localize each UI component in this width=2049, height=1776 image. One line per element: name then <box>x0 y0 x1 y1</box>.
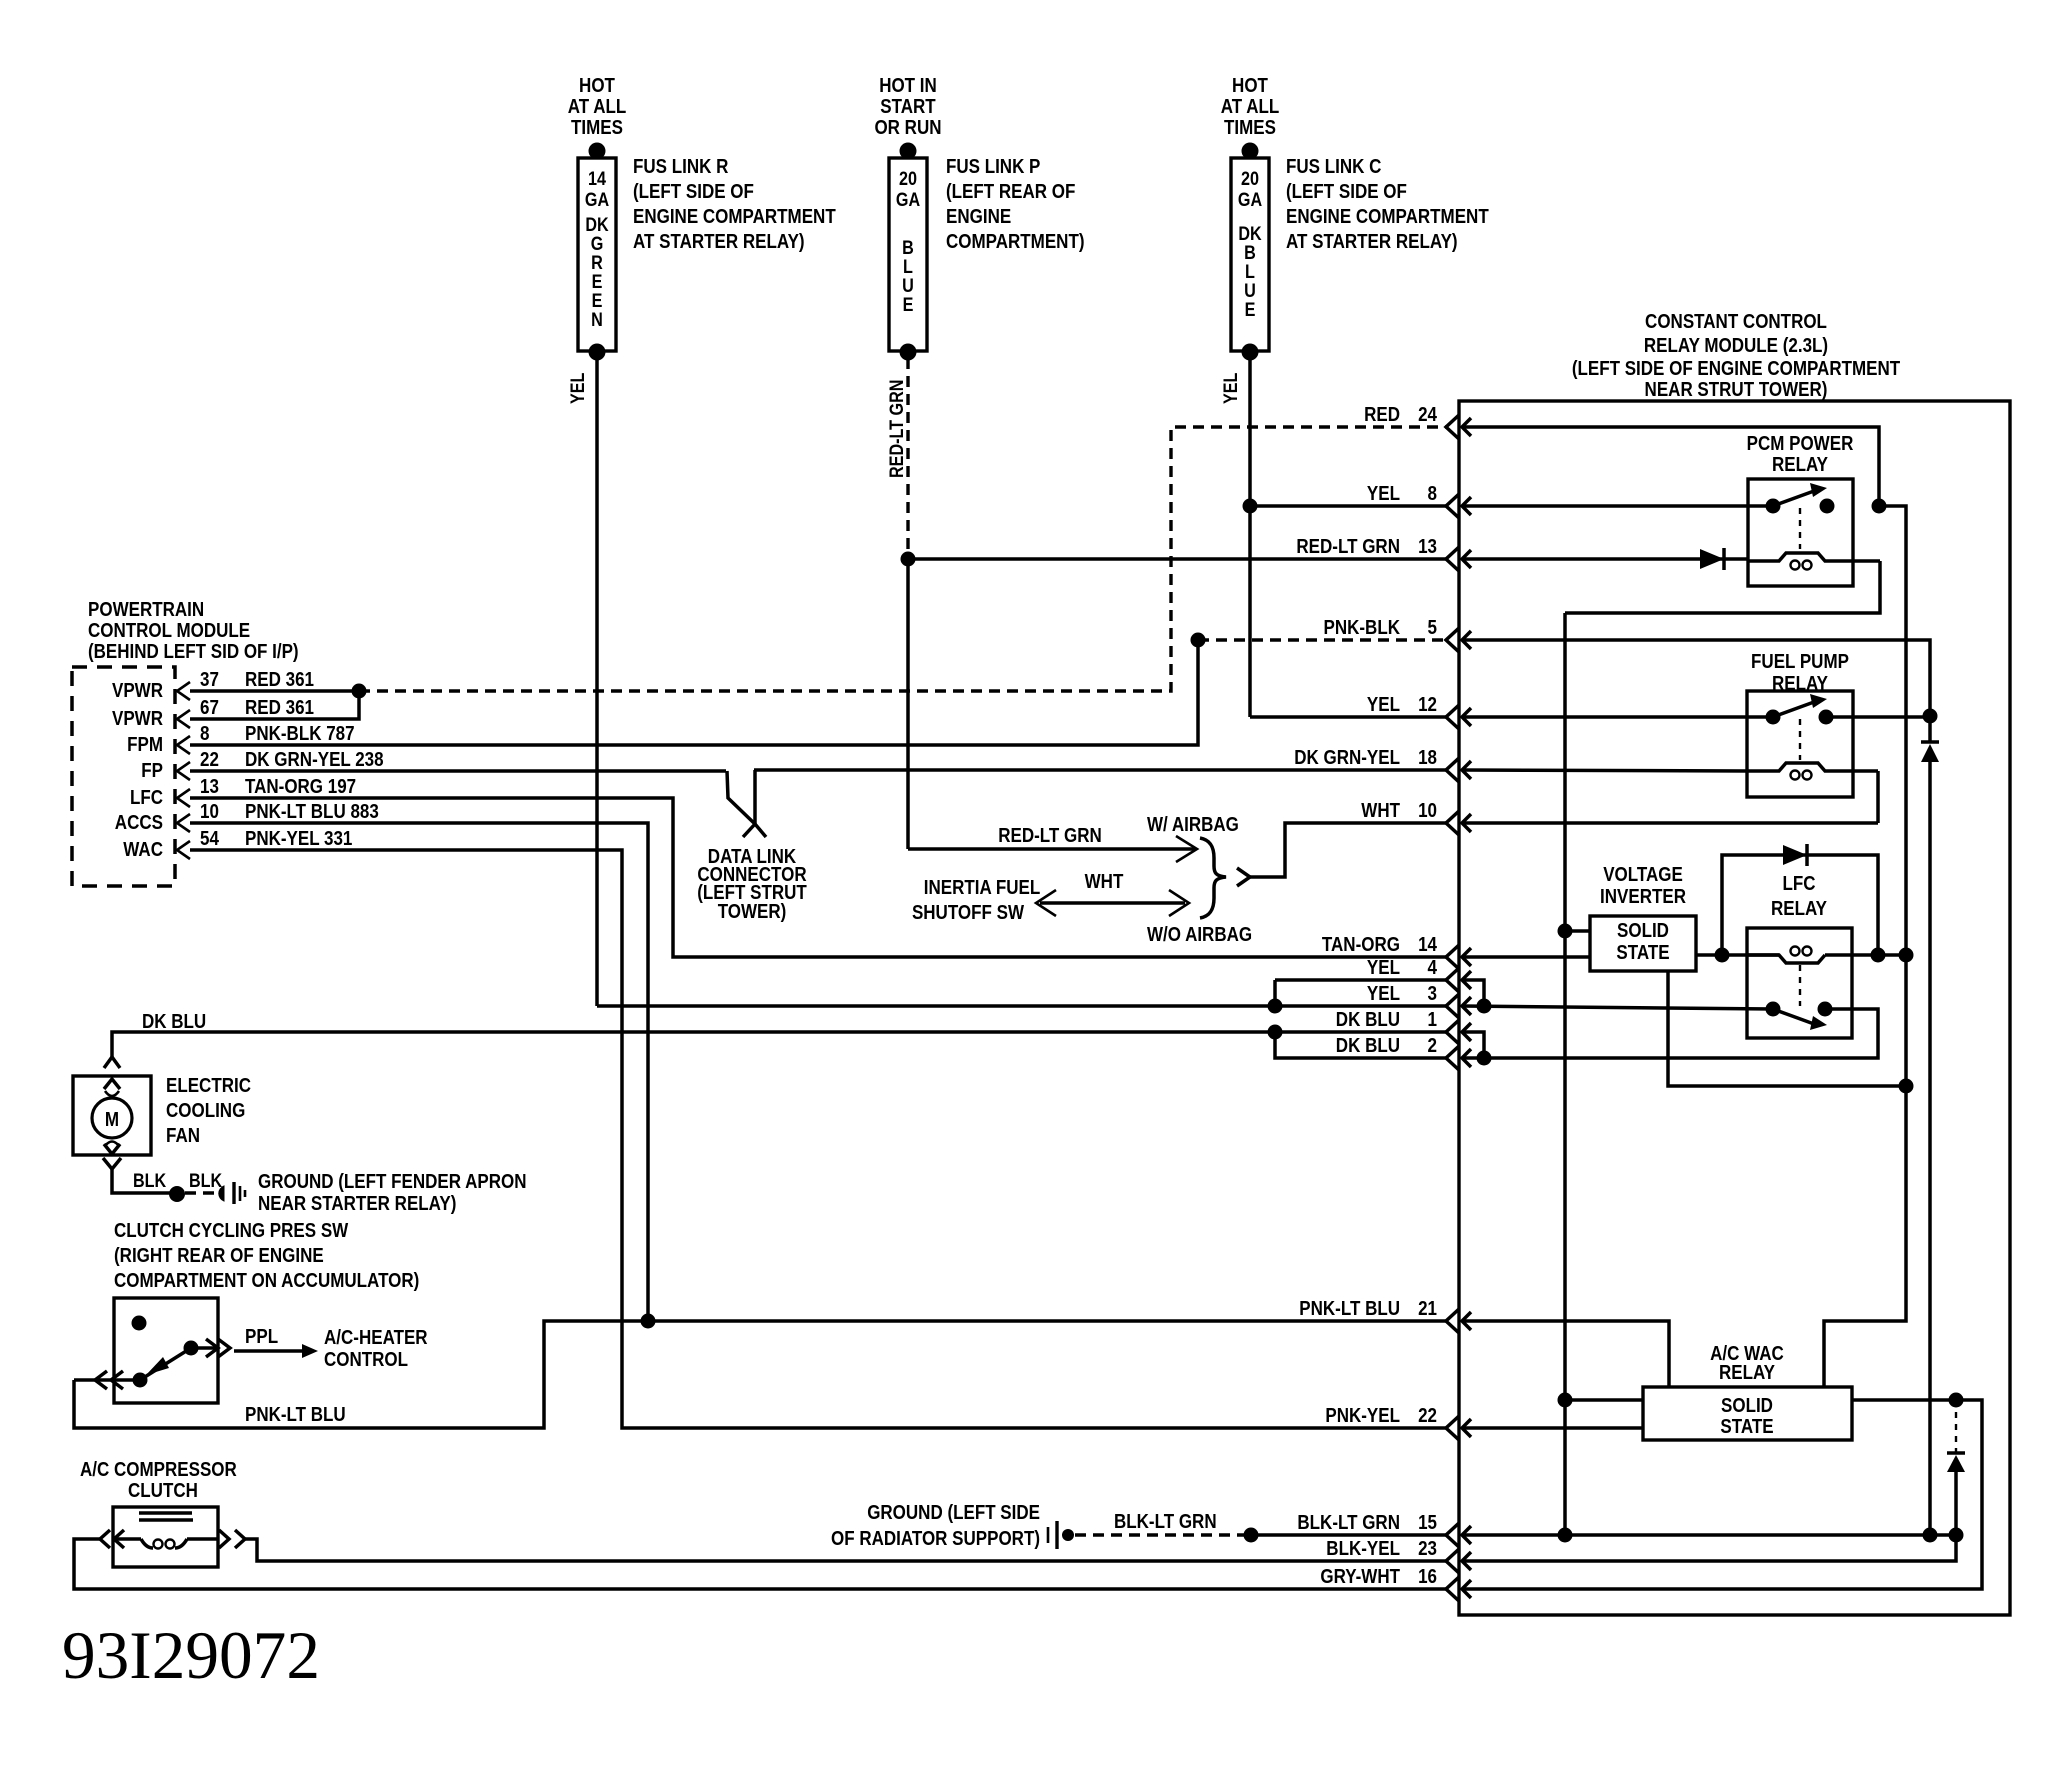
CCRM pin 15 (BLK-LT GRN) <box>1297 1512 1471 1547</box>
svg-text:E: E <box>592 291 603 312</box>
CCRM pin 10 (WHT) <box>1361 800 1471 835</box>
wire BLK dashed to ground <box>185 1191 218 1194</box>
node pin1/2 junction <box>1477 1051 1492 1066</box>
node rail B / inverter bottom junction <box>1899 1079 1914 1094</box>
svg-text:10: 10 <box>1418 800 1437 822</box>
svg-text:STATE: STATE <box>1616 942 1669 964</box>
svg-text:FUEL PUMP: FUEL PUMP <box>1751 651 1849 673</box>
node YEL 3/4 junction <box>1268 999 1283 1014</box>
svg-text:GA: GA <box>1238 190 1262 211</box>
svg-text:E: E <box>592 272 603 293</box>
CCRM pin 21 (PNK-LT BLU) <box>1299 1298 1471 1333</box>
CCRM pin 13 (RED-LT GRN) <box>1296 536 1471 571</box>
wire BLK fan to ground <box>112 1169 177 1193</box>
svg-text:N: N <box>591 310 603 331</box>
fuel pump relay label <box>1751 651 1849 695</box>
svg-text:YEL: YEL <box>1221 372 1242 404</box>
svg-text:14: 14 <box>1418 934 1438 956</box>
svg-text:67: 67 <box>200 697 219 719</box>
wire inverter output to LFC relay coil <box>1696 953 1779 957</box>
svg-text:HOT IN: HOT IN <box>879 75 937 97</box>
wire pin 8 to PCM power relay contact <box>1462 504 1773 508</box>
svg-text:ELECTRIC: ELECTRIC <box>166 1075 251 1097</box>
svg-text:U: U <box>1244 281 1256 302</box>
svg-text:14: 14 <box>588 169 606 190</box>
svg-text:AT ALL: AT ALL <box>1221 96 1280 118</box>
svg-text:B: B <box>1244 243 1256 264</box>
svg-text:13: 13 <box>1418 536 1437 558</box>
svg-text:TIMES: TIMES <box>571 117 623 139</box>
svg-text:13: 13 <box>200 776 219 798</box>
wire pin 5 to fuel pump output <box>1462 640 1930 716</box>
svg-text:(RIGHT REAR OF ENGINE: (RIGHT REAR OF ENGINE <box>114 1245 324 1267</box>
svg-text:5: 5 <box>1428 617 1438 639</box>
svg-text:W/ AIRBAG: W/ AIRBAG <box>1147 814 1239 836</box>
wire FP DK GRN-YEL 238 (left of data link connector) <box>190 769 726 773</box>
svg-text:OR RUN: OR RUN <box>874 117 941 139</box>
PCM pin VPWR 67 (RED 361) <box>112 697 314 730</box>
svg-text:LFC: LFC <box>1783 873 1816 895</box>
svg-text:ENGINE: ENGINE <box>946 206 1011 228</box>
svg-text:PNK-YEL 331: PNK-YEL 331 <box>245 828 352 850</box>
wire YEL 8 to CCRM pin 8 <box>1250 504 1446 508</box>
svg-text:HOT: HOT <box>579 75 615 97</box>
powertrain control module label <box>88 599 299 663</box>
CCRM pin 22 (PNK-YEL) <box>1325 1405 1471 1440</box>
svg-text:DK: DK <box>1238 224 1262 245</box>
svg-text:FAN: FAN <box>166 1125 200 1147</box>
svg-text:TAN-ORG: TAN-ORG <box>1322 934 1400 956</box>
svg-text:BLK-LT GRN: BLK-LT GRN <box>1114 1511 1217 1533</box>
svg-text:ACCS: ACCS <box>115 812 163 834</box>
A/C WAC relay label <box>1710 1343 1784 1384</box>
svg-text:DK: DK <box>585 215 609 236</box>
A/C-heater control label <box>324 1327 428 1371</box>
node LFC coil / rail junction <box>1899 948 1914 963</box>
svg-text:AT ALL: AT ALL <box>568 96 627 118</box>
fuse link R (14 GA DK GREEN, hot at all times) <box>568 75 627 361</box>
svg-text:2: 2 <box>1428 1035 1438 1057</box>
wire pin 23 to ground net <box>1462 1535 1956 1561</box>
node inverter/diode loop junction <box>1715 948 1730 963</box>
svg-text:CONSTANT CONTROL: CONSTANT CONTROL <box>1645 311 1827 333</box>
wire PPL arrow to A/C-heater control <box>234 1326 318 1358</box>
svg-text:GROUND (LEFT SIDE: GROUND (LEFT SIDE <box>867 1502 1040 1524</box>
svg-text:FPM: FPM <box>127 734 163 756</box>
svg-text:RELAY: RELAY <box>1719 1362 1776 1384</box>
svg-text:PNK-BLK: PNK-BLK <box>1324 617 1401 639</box>
constant control relay module label <box>1572 311 1900 401</box>
fuse link C (20 GA DK BLUE, hot at all times) <box>1221 75 1280 361</box>
wire pin 12 to fuel pump relay contact <box>1462 715 1773 719</box>
node PNK-BLK junction <box>1191 633 1206 648</box>
node DK BLU 1/2 junction <box>1268 1025 1283 1040</box>
svg-text:YEL: YEL <box>1367 483 1400 505</box>
svg-text:(LEFT SIDE OF ENGINE COMPARTME: (LEFT SIDE OF ENGINE COMPARTMENT <box>1572 358 1900 380</box>
svg-text:93I29072: 93I29072 <box>62 1617 320 1693</box>
svg-text:YEL: YEL <box>1367 957 1400 979</box>
wire pin 2 to LFC relay contact output <box>1462 1009 1878 1058</box>
svg-text:WHT: WHT <box>1085 871 1124 893</box>
svg-text:(LEFT SIDE OF: (LEFT SIDE OF <box>633 181 754 203</box>
svg-text:VOLTAGE: VOLTAGE <box>1603 864 1683 886</box>
node WAC output / diode junction <box>1949 1393 1964 1408</box>
svg-text:GA: GA <box>896 190 920 211</box>
svg-text:CLUTCH: CLUTCH <box>128 1480 198 1502</box>
wire YEL from fuse link C down <box>1221 352 1250 717</box>
constant control relay module box <box>1459 401 2010 1615</box>
wire ground rail to WAC relay <box>1565 1398 1643 1402</box>
wire RED-LT GRN 13 to CCRM pin 13 <box>908 557 1446 561</box>
svg-text:NEAR STRUT TOWER): NEAR STRUT TOWER) <box>1645 379 1828 401</box>
svg-text:RELAY: RELAY <box>1772 454 1829 476</box>
wire RED-LT GRN arrow to W/ AIRBAG <box>908 825 1197 862</box>
svg-text:15: 15 <box>1418 1512 1437 1534</box>
wire WHT double arrow to inertia switch <box>1036 871 1189 916</box>
CCRM pin 14 (TAN-ORG) <box>1322 934 1471 969</box>
CCRM pin 23 (BLK-YEL) <box>1326 1538 1471 1573</box>
node pin3/4 junction <box>1477 999 1492 1014</box>
svg-text:RED-LT GRN: RED-LT GRN <box>887 380 908 478</box>
A/C WAC relay solid state box U4 <box>1643 1387 1852 1440</box>
node fuel pump output junction <box>1923 709 1938 724</box>
svg-text:TOWER): TOWER) <box>718 901 787 923</box>
CCRM pin 5 (PNK-BLK) <box>1324 617 1472 652</box>
svg-text:PNK-LT BLU: PNK-LT BLU <box>245 1404 346 1426</box>
wire pin 1 branch <box>1462 1032 1484 1058</box>
wire PNK-LT BLU switch to pin 21 <box>74 1321 1446 1428</box>
wire pin 13 with diode to PCM power relay coil <box>1462 548 1748 570</box>
svg-text:WHT: WHT <box>1361 800 1400 822</box>
wire PCM relay coil to ground rail <box>1565 561 1880 613</box>
svg-text:STATE: STATE <box>1720 1416 1773 1438</box>
svg-text:CONTROL MODULE: CONTROL MODULE <box>88 620 250 642</box>
voltage inverter label <box>1600 864 1686 908</box>
CCRM pin 3 (YEL) <box>1367 983 1471 1018</box>
inertia fuel shutoff switch label <box>912 877 1040 924</box>
voltage inverter solid state box <box>1590 916 1696 971</box>
chevron output of brace <box>1237 868 1250 886</box>
svg-text:FUS LINK R: FUS LINK R <box>633 156 729 178</box>
electric cooling fan motor M <box>73 1057 151 1169</box>
svg-text:(LEFT SIDE OF: (LEFT SIDE OF <box>1286 181 1407 203</box>
svg-text:BLK: BLK <box>189 1171 222 1192</box>
CCRM pin 2 (DK BLU) <box>1336 1035 1471 1070</box>
svg-text:37: 37 <box>200 669 219 691</box>
svg-text:INVERTER: INVERTER <box>1600 886 1686 908</box>
wire BLK-YEL clutch to pin 23 <box>245 1539 1446 1561</box>
A/C compressor clutch label <box>80 1459 237 1502</box>
PCM pin LFC 13 (TAN-ORG 197) <box>130 776 356 809</box>
wire pin 18 to fuel pump relay coil <box>1462 770 1747 771</box>
svg-text:18: 18 <box>1418 747 1437 769</box>
svg-text:L: L <box>1245 262 1255 283</box>
ground radiator support symbol <box>1048 1521 1074 1549</box>
fuse link P (20 GA BLUE, hot in start or run) <box>874 75 941 361</box>
wire GRY-WHT clutch to pin 16 <box>74 1539 1446 1589</box>
svg-text:GRY-WHT: GRY-WHT <box>1320 1566 1400 1588</box>
ground left fender apron <box>219 1182 245 1204</box>
node rail/inverter junction <box>1558 924 1573 939</box>
CCRM pin 18 (DK GRN-YEL) <box>1294 747 1471 782</box>
data link connector symbol <box>727 770 766 837</box>
CCRM pin 24 (RED) <box>1364 404 1471 439</box>
svg-text:INERTIA FUEL: INERTIA FUEL <box>924 877 1041 899</box>
svg-text:HOT: HOT <box>1232 75 1268 97</box>
svg-text:BLK-LT GRN: BLK-LT GRN <box>1297 1512 1400 1534</box>
svg-text:20: 20 <box>1241 169 1259 190</box>
wire RED-LT GRN dashed from fuse link P down <box>887 358 908 559</box>
wire pin 14 to voltage inverter <box>1462 955 1590 959</box>
svg-text:FUS LINK P: FUS LINK P <box>946 156 1040 178</box>
svg-text:WAC: WAC <box>123 839 163 861</box>
svg-text:PPL: PPL <box>245 1326 278 1348</box>
svg-text:PNK-YEL: PNK-YEL <box>1325 1405 1400 1427</box>
svg-text:FP: FP <box>141 760 163 782</box>
svg-text:SOLID: SOLID <box>1721 1395 1773 1417</box>
svg-text:DK BLU: DK BLU <box>1336 1035 1400 1057</box>
PCM pin FP 22 (DK GRN-YEL 238) <box>141 749 383 782</box>
svg-text:GA: GA <box>585 190 609 211</box>
wire VPWR 37 RED 361 <box>190 689 359 693</box>
PCM pin VPWR 37 (RED 361) <box>112 669 314 702</box>
node BLK splice <box>169 1186 185 1202</box>
wire BLK-LT GRN dashed from ground <box>1075 1533 1251 1536</box>
electric cooling fan label <box>166 1075 251 1147</box>
wire ground rail to voltage inverter <box>1565 929 1590 933</box>
svg-text:R: R <box>591 253 603 274</box>
node RED 361 junction <box>352 684 367 699</box>
svg-text:AT STARTER RELAY): AT STARTER RELAY) <box>1286 231 1458 253</box>
svg-text:FUS LINK C: FUS LINK C <box>1286 156 1381 178</box>
svg-text:PNK-LT BLU: PNK-LT BLU <box>1299 1298 1400 1320</box>
svg-text:RED: RED <box>1364 404 1400 426</box>
wire pin 15 ground distribution <box>1462 1533 1956 1537</box>
svg-text:22: 22 <box>1418 1405 1437 1427</box>
svg-text:DK GRN-YEL 238: DK GRN-YEL 238 <box>245 749 384 771</box>
svg-text:NEAR STARTER RELAY): NEAR STARTER RELAY) <box>258 1193 456 1215</box>
CCRM pin 1 (DK BLU) <box>1336 1009 1471 1044</box>
node rail/WAC junction <box>1558 1393 1573 1408</box>
diode A/C WAC clamp <box>1947 1400 1965 1535</box>
svg-text:24: 24 <box>1418 404 1438 426</box>
wire DK BLU fan to pin 1 <box>112 1032 1446 1057</box>
node contact output junction <box>1872 499 1887 514</box>
wire BLK-LT GRN 15 to pin 15 <box>1251 1533 1446 1537</box>
svg-text:21: 21 <box>1418 1298 1437 1320</box>
node BLK-LT GRN junction <box>1244 1528 1259 1543</box>
svg-text:10: 10 <box>200 801 219 823</box>
node junction fuse P wire / RED-LT GRN 13 <box>901 552 916 567</box>
svg-text:LFC: LFC <box>130 787 163 809</box>
node PNK-LT BLU junction <box>641 1314 656 1329</box>
svg-text:BLK: BLK <box>133 1171 166 1192</box>
svg-text:COMPARTMENT): COMPARTMENT) <box>946 231 1085 253</box>
svg-text:RELAY: RELAY <box>1771 898 1828 920</box>
wire relay output rail B down to A/C WAC relay <box>1824 506 1906 1387</box>
wire pin 4 branch <box>1462 980 1484 1006</box>
svg-text:PCM POWER: PCM POWER <box>1747 433 1854 455</box>
wire FPM PNK-BLK 787 <box>190 640 1198 745</box>
svg-text:RED 361: RED 361 <box>245 697 314 719</box>
svg-text:3: 3 <box>1428 983 1438 1005</box>
svg-text:8: 8 <box>200 723 210 745</box>
svg-text:GROUND (LEFT FENDER APRON: GROUND (LEFT FENDER APRON <box>258 1171 527 1193</box>
node pin15/fuel pump diode junction <box>1923 1528 1938 1543</box>
svg-text:20: 20 <box>899 169 917 190</box>
svg-text:START: START <box>880 96 935 118</box>
svg-text:RED-LT GRN: RED-LT GRN <box>998 825 1102 847</box>
svg-text:DK GRN-YEL: DK GRN-YEL <box>1294 747 1400 769</box>
svg-text:VPWR: VPWR <box>112 708 163 730</box>
wire WHT 10 to CCRM pin 10 <box>1250 823 1446 877</box>
svg-text:E: E <box>1245 300 1256 321</box>
svg-text:23: 23 <box>1418 1538 1437 1560</box>
svg-text:8: 8 <box>1428 483 1438 505</box>
wire YEL 4 branch <box>1275 978 1446 982</box>
svg-text:BLK-YEL: BLK-YEL <box>1326 1538 1400 1560</box>
PCM pin ACCS 10 (PNK-LT BLU 883) <box>115 801 379 834</box>
svg-text:ENGINE COMPARTMENT: ENGINE COMPARTMENT <box>633 206 836 228</box>
CCRM pin 4 (YEL) <box>1367 957 1471 992</box>
svg-text:OF RADIATOR SUPPORT): OF RADIATOR SUPPORT) <box>831 1528 1040 1550</box>
svg-text:ENGINE COMPARTMENT: ENGINE COMPARTMENT <box>1286 206 1489 228</box>
svg-text:A/C COMPRESSOR: A/C COMPRESSOR <box>80 1459 237 1481</box>
svg-text:1: 1 <box>1428 1009 1438 1031</box>
svg-text:12: 12 <box>1418 694 1437 716</box>
svg-text:(BEHIND LEFT SID OF I/P): (BEHIND LEFT SID OF I/P) <box>88 641 299 663</box>
node LFC coil / contact loop junction <box>1871 948 1886 963</box>
svg-text:VPWR: VPWR <box>112 680 163 702</box>
svg-text:RED 361: RED 361 <box>245 669 314 691</box>
svg-text:22: 22 <box>200 749 219 771</box>
wire pin 21 to A/C WAC relay <box>1462 1321 1669 1387</box>
wire WAC relay output to pin 16 <box>1462 1400 1982 1589</box>
powertrain control module connector (dashed box) <box>72 667 175 886</box>
brace joining airbag options <box>1200 838 1226 918</box>
PCM pin FPM 8 (PNK-BLK 787) <box>127 723 355 756</box>
svg-text:(LEFT REAR OF: (LEFT REAR OF <box>946 181 1075 203</box>
node pin15/WAC diode junction <box>1949 1528 1964 1543</box>
PCM pin WAC 54 (PNK-YEL 331) <box>123 828 352 861</box>
svg-text:CONTROL: CONTROL <box>324 1349 408 1371</box>
CCRM pin 8 (YEL) <box>1367 483 1471 518</box>
svg-text:RED-LT GRN: RED-LT GRN <box>1296 536 1400 558</box>
svg-text:COOLING: COOLING <box>166 1100 245 1122</box>
wire voltage inverter bottom to rail B <box>1668 971 1906 1086</box>
svg-text:U: U <box>902 276 914 297</box>
wire LFC TAN-ORG 197 to CCRM pin 14 <box>190 798 1446 957</box>
wire DK BLU 2 branch <box>1275 1032 1446 1058</box>
ground label <box>258 1171 527 1215</box>
wire YEL 12 to CCRM pin 12 <box>1250 715 1446 719</box>
node junction YEL 8 tap <box>1243 499 1258 514</box>
svg-text:4: 4 <box>1428 957 1438 979</box>
wire PNK-BLK 5 dashed to CCRM pin 5 <box>1198 638 1446 641</box>
svg-text:RELAY MODULE (2.3L): RELAY MODULE (2.3L) <box>1644 335 1828 357</box>
svg-text:54: 54 <box>200 828 220 850</box>
A/C compressor clutch L1 <box>100 1507 245 1567</box>
wire DK GRN-YEL 18 to CCRM pin 18 <box>754 768 1446 772</box>
wire RED 361 dashed to CCRM pin 24 <box>359 427 1446 691</box>
svg-text:16: 16 <box>1418 1566 1437 1588</box>
diode LFC relay loop <box>1722 844 1878 955</box>
wire RED-LT GRN down to inertia switch arrow <box>906 559 910 849</box>
svg-text:AT STARTER RELAY): AT STARTER RELAY) <box>633 231 805 253</box>
clutch cycling pressure switch S1 <box>74 1298 230 1403</box>
wire pin 10 to fuel pump relay coil right <box>1462 771 1878 823</box>
wire ACCS PNK-LT BLU 883 down to PNK-LT BLU 21 <box>190 823 648 1321</box>
diode fuel pump output <box>1921 717 1939 1535</box>
wire fuel pump contact output <box>1826 715 1930 719</box>
CCRM pin 12 (YEL) <box>1367 694 1471 729</box>
wire pin 24 to PCM power relay contact <box>1462 427 1879 506</box>
node rail/pin15 junction <box>1558 1528 1573 1543</box>
CCRM pin 16 (GRY-WHT) <box>1320 1566 1471 1601</box>
pcm power relay label <box>1747 433 1854 476</box>
svg-text:A/C-HEATER: A/C-HEATER <box>324 1327 428 1349</box>
svg-text:SOLID: SOLID <box>1617 920 1669 942</box>
LFC relay U3 <box>1747 928 1852 1038</box>
wire pin 22 to WAC relay <box>1462 1426 1643 1430</box>
data link connector label <box>697 846 807 923</box>
svg-text:L: L <box>903 257 913 278</box>
svg-text:COMPARTMENT ON ACCUMULATOR): COMPARTMENT ON ACCUMULATOR) <box>114 1270 419 1292</box>
svg-text:TIMES: TIMES <box>1224 117 1276 139</box>
svg-text:SHUTOFF SW: SHUTOFF SW <box>912 902 1024 924</box>
svg-text:YEL: YEL <box>1367 694 1400 716</box>
wire YEL from fuse link R down to YEL 3 <box>568 352 1446 1006</box>
svg-text:G: G <box>591 234 604 255</box>
fuel pump relay U2 <box>1747 691 1878 797</box>
svg-text:PNK-LT BLU 883: PNK-LT BLU 883 <box>245 801 379 823</box>
wire VPWR 67 RED 361 <box>190 691 359 719</box>
svg-text:W/O AIRBAG: W/O AIRBAG <box>1147 924 1252 946</box>
svg-text:POWERTRAIN: POWERTRAIN <box>88 599 204 621</box>
pcm power relay U1 <box>1748 479 1880 586</box>
svg-text:CLUTCH CYCLING PRES SW: CLUTCH CYCLING PRES SW <box>114 1220 348 1242</box>
ground left side of radiator support label <box>831 1502 1040 1550</box>
svg-text:YEL: YEL <box>1367 983 1400 1005</box>
ground rail vertical inside CCRM <box>1563 613 1567 1535</box>
svg-text:TAN-ORG 197: TAN-ORG 197 <box>245 776 356 798</box>
svg-text:B: B <box>902 238 914 259</box>
svg-text:YEL: YEL <box>568 372 589 404</box>
svg-text:DK BLU: DK BLU <box>142 1011 206 1033</box>
wire WAC PNK-YEL 331 down to PNK-YEL 22 <box>190 850 1446 1428</box>
svg-text:DK BLU: DK BLU <box>1336 1009 1400 1031</box>
svg-text:PNK-BLK 787: PNK-BLK 787 <box>245 723 355 745</box>
LFC relay label <box>1771 873 1828 920</box>
wire pin 3 to LFC relay contact <box>1462 1006 1773 1009</box>
svg-text:E: E <box>903 295 914 316</box>
clutch cycling pressure switch label <box>114 1220 419 1292</box>
svg-text:M: M <box>105 1109 119 1131</box>
